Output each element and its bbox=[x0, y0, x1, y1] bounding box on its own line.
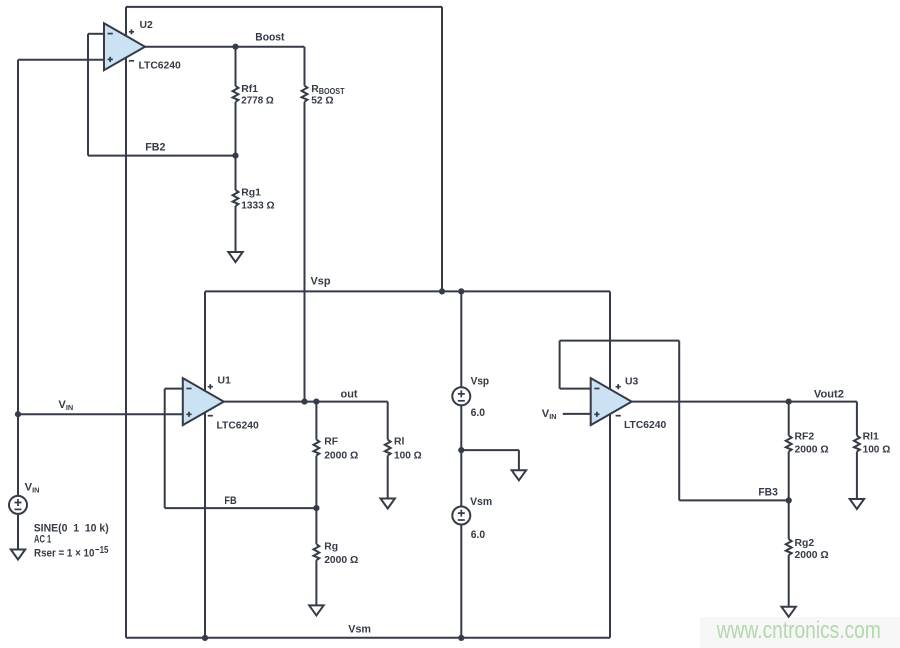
svg-text:52 Ω: 52 Ω bbox=[311, 95, 333, 106]
svg-text:Rl1: Rl1 bbox=[863, 432, 879, 443]
wire U3 inverting input stub bbox=[560, 388, 591, 390]
resistor RF bbox=[314, 436, 359, 461]
wire RF2 bottom to FB3 node bbox=[788, 452, 790, 501]
wire U3 output to Vout2 and Rl1 bbox=[632, 401, 857, 403]
ground ground at supply midpoint bbox=[512, 470, 526, 480]
svg-text:FB2: FB2 bbox=[145, 141, 165, 153]
wire U2 output to Boost node bbox=[145, 46, 304, 48]
svg-text:out: out bbox=[341, 389, 358, 401]
voltage source Vsm symbol bbox=[452, 507, 470, 525]
wire Rg bottom to ground bbox=[315, 560, 317, 605]
wire FB2 horizontal bbox=[88, 155, 236, 157]
svg-text:1333 Ω: 1333 Ω bbox=[241, 201, 274, 212]
wire U2 inverting input stub bbox=[88, 33, 104, 35]
wire midpoint node to ground horizontal bbox=[461, 449, 519, 451]
wire VIN source bottom lead bbox=[17, 514, 19, 550]
svg-text:U1: U1 bbox=[218, 376, 232, 387]
svg-text:100 Ω: 100 Ω bbox=[863, 445, 891, 456]
op-amp U1 (LTC6240) bbox=[183, 378, 224, 425]
wire U3 feedback top horizontal bbox=[560, 340, 680, 342]
voltage source Vsp symbol bbox=[452, 387, 470, 405]
junction node out junction (RF branch) bbox=[313, 399, 319, 405]
svg-text:LTC6240: LTC6240 bbox=[217, 420, 259, 431]
junction U1 supply to Vsm bus junction bbox=[202, 635, 208, 641]
wire Rg1 bottom to ground bbox=[235, 206, 237, 252]
wire U3 VIN input stub bbox=[563, 413, 591, 415]
svg-text:Rg1: Rg1 bbox=[241, 188, 261, 199]
wire Vout2 down to RF2 top bbox=[788, 402, 790, 436]
wire Vsp bus down to Vsp source bbox=[460, 291, 462, 387]
junction RBOOST to out junction bbox=[301, 399, 307, 405]
wire out corner down to Rl bbox=[387, 402, 389, 440]
wire FB3 horizontal bbox=[679, 499, 789, 501]
svg-text:2000 Ω: 2000 Ω bbox=[324, 555, 358, 566]
ground ground below Rl bbox=[381, 499, 395, 509]
resistor RBOOST bbox=[302, 84, 345, 106]
svg-text:FB: FB bbox=[224, 495, 236, 507]
wire top bus horizontal bbox=[126, 6, 442, 8]
svg-text:www.cntronics.com: www.cntronics.com bbox=[716, 617, 881, 644]
junction top bus to Vsp bus junction bbox=[439, 288, 445, 294]
svg-text:RF2: RF2 bbox=[795, 432, 815, 443]
op-amp U3 (LTC6240) bbox=[591, 378, 632, 425]
svg-text:2000 Ω: 2000 Ω bbox=[795, 445, 829, 456]
svg-text:2778 Ω: 2778 Ω bbox=[241, 95, 273, 106]
wire Boost to Rf1 top bbox=[235, 47, 237, 86]
junction node Boost junction bbox=[232, 44, 238, 50]
wire Vsm source to Vsm bus bbox=[460, 525, 462, 638]
wire Vout2 corner down to Rl1 bbox=[856, 402, 858, 436]
wire U1 inverting input stub bbox=[165, 388, 183, 390]
svg-text:U2: U2 bbox=[140, 20, 154, 31]
resistor Rg2 bbox=[786, 538, 829, 561]
wire Vsp bus horizontal bbox=[205, 290, 610, 292]
wire Vsm bus bottom bbox=[126, 637, 610, 639]
junction node FB3 junction bbox=[786, 497, 792, 503]
svg-text:LTC6240: LTC6240 bbox=[624, 420, 666, 431]
svg-text:RF: RF bbox=[324, 436, 338, 447]
junction supply midpoint junction bbox=[458, 447, 464, 453]
wire FB2 to Rg1 top bbox=[235, 156, 237, 190]
wire U3 supply vertical bbox=[609, 291, 611, 637]
svg-text:Vsm: Vsm bbox=[348, 624, 371, 636]
op-amp U2 (LTC6240) bbox=[104, 23, 145, 70]
svg-text:2000 Ω: 2000 Ω bbox=[324, 451, 358, 462]
wire FB node down to Rg top bbox=[315, 508, 317, 544]
junction Vsp source branch junction on Vsp bus bbox=[458, 288, 464, 294]
wire U3 feedback left vertical bbox=[559, 341, 561, 389]
svg-text:Boost: Boost bbox=[255, 32, 284, 44]
wire FB3 node down to Rg2 top bbox=[788, 500, 790, 539]
voltage source VIN symbol bbox=[9, 496, 27, 514]
svg-text:RBOOST: RBOOST bbox=[311, 84, 345, 96]
svg-text:Rf1: Rf1 bbox=[241, 84, 258, 95]
wire U1 output to out node and Rl bbox=[224, 401, 388, 403]
svg-text:VIN: VIN bbox=[542, 408, 557, 421]
wire VIN left vertical bbox=[17, 60, 19, 414]
svg-text:Rg: Rg bbox=[324, 542, 338, 553]
wire U1 feedback vertical to FB bbox=[164, 389, 166, 509]
ground ground below Rg bbox=[309, 605, 323, 615]
junction node FB2 junction bbox=[232, 153, 238, 159]
ground ground below Rl1 bbox=[850, 499, 864, 509]
wire Rf1 bottom to FB2 bbox=[235, 102, 237, 156]
svg-text:Rg2: Rg2 bbox=[795, 538, 815, 549]
svg-text:Rser = 1 × 10: Rser = 1 × 10 bbox=[34, 548, 94, 560]
wire top bus right vertical down to Vsp bbox=[441, 7, 443, 292]
watermark background band bbox=[700, 617, 900, 648]
wire out node down to RF top bbox=[315, 402, 317, 440]
svg-text:VIN: VIN bbox=[25, 481, 40, 494]
wire VIN source top lead bbox=[17, 414, 19, 496]
ground ground below Rg1 bbox=[228, 252, 242, 262]
svg-text:LTC6240: LTC6240 bbox=[139, 61, 181, 72]
wire RF bottom to FB node bbox=[315, 456, 317, 509]
svg-text:2000 Ω: 2000 Ω bbox=[795, 550, 829, 561]
resistor Rg1 bbox=[233, 188, 275, 212]
wire Rl1 bottom to ground bbox=[856, 452, 858, 499]
svg-text:U3: U3 bbox=[625, 376, 639, 387]
junction node FB junction bbox=[313, 505, 319, 511]
junction node VIN junction bbox=[15, 411, 21, 417]
svg-text:Vsm: Vsm bbox=[470, 496, 492, 508]
wire U2 feedback vertical to FB2 bbox=[87, 34, 89, 156]
wire U2 non-inverting input horizontal bbox=[18, 59, 104, 61]
wire Boost to RBOOST top bbox=[304, 47, 306, 86]
VIN source Rser parameter text bbox=[34, 545, 109, 559]
ground ground below Rg2 bbox=[782, 607, 796, 617]
svg-text:FB3: FB3 bbox=[758, 486, 777, 498]
wire U3 feedback right vertical to FB3 (crosses output) bbox=[678, 341, 680, 501]
wire Rl bottom to ground bbox=[387, 456, 389, 499]
wire FB horizontal bbox=[165, 507, 317, 509]
ground ground below VIN source bbox=[11, 550, 25, 560]
svg-text:−15: −15 bbox=[95, 545, 109, 556]
wire U2 positive supply / Vsm rail vertical at x126 bbox=[125, 7, 127, 638]
resistor Rg bbox=[314, 542, 359, 567]
wire VIN horizontal to U1 bbox=[18, 413, 183, 415]
wire midpoint ground stub vertical bbox=[518, 450, 520, 470]
resistor Rf1 bbox=[233, 84, 274, 106]
svg-text:100 Ω: 100 Ω bbox=[394, 450, 422, 461]
svg-text:Rl: Rl bbox=[394, 437, 405, 448]
resistor RF2 bbox=[786, 432, 829, 456]
wire RBOOST bottom to out node (crosses Vsp bus) bbox=[304, 102, 306, 402]
svg-text:AC 1: AC 1 bbox=[34, 533, 51, 545]
resistor Rl bbox=[385, 437, 422, 462]
junction Vsm source to Vsm bus junction bbox=[458, 635, 464, 641]
svg-text:VIN: VIN bbox=[58, 399, 73, 412]
wire Rg2 bottom to ground bbox=[788, 555, 790, 607]
wire U1 supply vertical bbox=[204, 291, 206, 637]
svg-text:Vsp: Vsp bbox=[311, 275, 331, 287]
resistor Rl1 bbox=[854, 432, 890, 456]
wire Vsp source to midpoint node bbox=[460, 405, 462, 506]
svg-text:Vout2: Vout2 bbox=[814, 388, 844, 400]
svg-text:Vsp: Vsp bbox=[471, 376, 490, 388]
svg-text:6.0: 6.0 bbox=[471, 529, 485, 541]
svg-text:6.0: 6.0 bbox=[471, 407, 485, 419]
junction node Vout2 junction bbox=[786, 399, 792, 405]
